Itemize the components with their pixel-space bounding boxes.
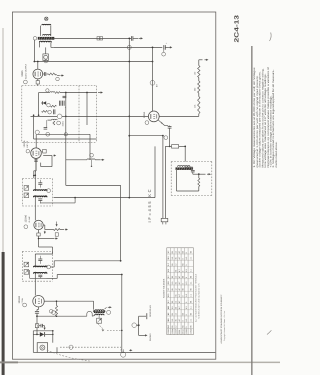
oscillator coil L2 upper winding — [95, 310, 104, 311]
svg-text:TO B MINUS WITH LINE VOLTAGE A: TO B MINUS WITH LINE VOLTAGE AT 117V — [197, 282, 200, 319]
B+ bus trunk x=130.8 — [128, 40, 130, 197]
svg-text:98: 98 — [189, 301, 192, 303]
svg-text:2: 2 — [167, 259, 170, 260]
svg-text:85: 85 — [171, 288, 174, 290]
wire: x=155 down from 146.4 — [154, 146, 156, 197]
V5 cathode diagonal — [158, 120, 168, 126]
output transformer T3 primary winding — [39, 41, 51, 42]
svg-text:2.1: 2.1 — [189, 306, 192, 309]
svg-text:12BA6: 12BA6 — [25, 214, 28, 222]
resistor R4 screen dropping — [54, 229, 61, 231]
svg-text:12AT6: 12AT6 — [23, 140, 26, 148]
wire: left rail lower x=33.6 — [33, 115, 35, 139]
svg-text:85: 85 — [171, 264, 174, 266]
part label circle T1 — [47, 265, 51, 269]
svg-text:0.5: 0.5 — [171, 306, 174, 309]
tuning gang curve arrow (dashed) — [98, 323, 103, 328]
wire: trunk x=121.8 down — [121, 275, 123, 353]
ganged tuning dashed line — [60, 346, 121, 348]
capacitor C17 — [168, 126, 172, 128]
part label circle V1 — [23, 303, 27, 307]
svg-text:35: 35 — [174, 270, 177, 272]
svg-text:88: 88 — [181, 251, 184, 253]
wire: T1 to B+ bus with kink — [51, 266, 55, 268]
pilot lamp I1 — [43, 54, 49, 61]
tube V5 35W4 rectifier — [148, 111, 159, 122]
wire: left branch down from T3 label — [33, 40, 35, 62]
svg-text:85: 85 — [171, 313, 174, 315]
grid box at V3 — [43, 149, 47, 153]
resistor R6 — [51, 105, 57, 107]
svg-text:12: 12 — [174, 301, 177, 303]
svg-text:12BE6: 12BE6 — [185, 328, 188, 333]
T1 trimmer capacitor upper — [38, 258, 42, 260]
svg-text:7: 7 — [167, 290, 170, 291]
wire: plate line to osc coil — [57, 300, 94, 302]
wire: H6 corner down to dial lamp tap — [89, 134, 91, 160]
svg-text:150: 150 — [193, 72, 196, 75]
svg-text:4.7: 4.7 — [178, 319, 181, 322]
capacitor C10 bypass — [65, 93, 67, 97]
svg-text:4: 4 — [167, 271, 170, 272]
svg-text:4.7: 4.7 — [178, 306, 181, 309]
svg-text:4.7: 4.7 — [178, 257, 181, 260]
speaker plug fork — [132, 323, 137, 328]
wire: B+ trunk x=120.6 — [120, 185, 122, 260]
svg-text:AUDIO OUTPUT: AUDIO OUTPUT — [25, 63, 28, 79]
wire: V1 cathode down — [38, 307, 40, 310]
svg-text:98: 98 — [189, 276, 192, 278]
svg-text:12: 12 — [174, 313, 177, 315]
part label circle V3 — [26, 149, 30, 153]
T2 primary winding — [34, 190, 47, 191]
svg-text:85: 85 — [171, 276, 174, 278]
T1 inner bottom wire — [30, 277, 47, 279]
wire: plate feed down to rectifier V5 — [152, 47, 154, 111]
dashed enclosure: IF transformer T2 — [22, 178, 52, 180]
part label circle 15 — [46, 89, 49, 92]
T1 secondary winding — [34, 272, 47, 273]
resistor R10 grid leak — [49, 73, 56, 75]
wire: trunk from H4 down (x=65.8) — [65, 93, 67, 186]
voltage divider resistor R14b — [198, 81, 200, 93]
junction circle on plate line of V3 — [35, 130, 39, 134]
wire: H at 146.4 with resistor R15 — [165, 145, 171, 147]
tick below dial tap — [91, 160, 93, 165]
svg-text:50B5: 50B5 — [21, 70, 24, 77]
part label circle on plate feed — [150, 80, 155, 85]
svg-text:12AT6: 12AT6 — [174, 329, 177, 334]
tube V3 12AT6 det-AVC-audio — [31, 148, 42, 159]
svg-text:6.3: 6.3 — [185, 294, 188, 297]
svg-text:10: 10 — [167, 307, 170, 309]
wire: T2 secondary to V2 grid — [34, 206, 36, 220]
part label circle V5 — [145, 121, 149, 125]
svg-text:98: 98 — [189, 313, 192, 315]
svg-text:SPKR PLUG: SPKR PLUG — [149, 305, 152, 317]
H6 wire: V3 plate to coupling — [37, 133, 90, 135]
filament bus H3 — [34, 61, 153, 63]
svg-text:1: 1 — [167, 252, 170, 253]
arrow: to dial lamp — [101, 159, 103, 161]
capacitor C20 with arrow — [39, 325, 41, 327]
part label circle R2b — [49, 310, 53, 314]
tube V1 12BE6 converter — [33, 296, 44, 307]
slug box A — [97, 318, 102, 323]
svg-text:2.1: 2.1 — [189, 257, 192, 260]
wire: V1 plate right — [44, 300, 56, 302]
capacitor C11 bars — [52, 109, 54, 114]
wire: right leg down — [52, 331, 54, 343]
coil L5 detector load — [39, 92, 50, 94]
svg-text:2.1: 2.1 — [189, 294, 192, 297]
interlock plug — [161, 218, 168, 221]
svg-text:4.7: 4.7 — [178, 282, 181, 285]
wire: T3 primary left lead down — [38, 42, 40, 47]
V2 AVC arrow — [44, 231, 46, 233]
resistor R7 row — [42, 111, 48, 113]
svg-text:12BE6: 12BE6 — [18, 295, 21, 303]
svg-text:3: 3 — [167, 265, 170, 266]
part label circle R2 — [52, 311, 56, 315]
svg-text:PHONO: PHONO — [149, 333, 152, 341]
junction circle on H3 — [44, 60, 47, 63]
capacitor C9 at end of H2 — [163, 45, 165, 50]
part label circle 17 — [48, 110, 52, 114]
output transformer T3 secondary winding — [43, 35, 51, 36]
wire: twin leads down to interlock — [162, 136, 164, 219]
svg-text:50B5: 50B5 — [178, 330, 181, 334]
wire: T1 to converter V1 grid — [34, 281, 36, 295]
dashed enclosure: volume control & detector network — [22, 85, 97, 87]
svg-text:12BA6: 12BA6 — [171, 328, 174, 333]
svg-text:0: 0 — [185, 277, 188, 278]
svg-text:0: 0 — [185, 252, 188, 253]
T2 trimmer capacitor upper — [38, 182, 42, 184]
svg-text:11: 11 — [167, 313, 170, 315]
part label circle V2 — [24, 225, 28, 229]
T2 secondary winding — [34, 196, 47, 197]
diode element D1 — [43, 101, 47, 105]
junction circle on H2 under C8 — [127, 45, 131, 49]
wire: H7 from trunk to tap — [66, 159, 87, 161]
dashed enclosure: filter choke / 1st IF — [171, 161, 212, 163]
svg-text:SOCKET VOLTAGES: SOCKET VOLTAGES — [163, 278, 166, 298]
choke L4 winding — [178, 166, 191, 167]
svg-text:0: 0 — [181, 283, 184, 284]
dashed partition of control section — [78, 86, 80, 143]
dial lamp tap coil L6 — [87, 159, 95, 160]
svg-text:88: 88 — [181, 276, 184, 278]
svg-text:ALL VOLTAGES MEASURED FROM SOC: ALL VOLTAGES MEASURED FROM SOCKET TERMIN… — [194, 273, 197, 322]
V2 plate wire and corner — [43, 224, 45, 226]
svg-text:IF=455 KC: IF=455 KC — [147, 189, 152, 222]
volume control R8 winding — [52, 118, 58, 121]
svg-text:35: 35 — [174, 307, 177, 309]
svg-text:0.5: 0.5 — [171, 282, 174, 285]
part label box 12 — [55, 233, 58, 236]
output transformer T3 core — [38, 37, 55, 40]
capacitor C8 at end of H1 — [130, 36, 132, 41]
svg-text:0: 0 — [181, 271, 184, 272]
svg-text:IF AMP: IF AMP — [28, 216, 31, 223]
electrolytic caps C12 C13 — [58, 101, 60, 106]
part label circle tuning — [69, 345, 73, 349]
svg-text:1MEG: 1MEG — [61, 121, 64, 127]
resistor R16 — [198, 178, 200, 187]
svg-text:6.3: 6.3 — [185, 306, 188, 309]
svg-text:0: 0 — [185, 314, 188, 315]
svg-text:6.3: 6.3 — [185, 282, 188, 285]
grid capacitor C14 at V4 — [43, 73, 44, 75]
voltage divider resistor R14c — [198, 97, 200, 114]
svg-text:0: 0 — [185, 302, 188, 303]
svg-text:6: 6 — [167, 283, 170, 284]
svg-text:12: 12 — [174, 288, 177, 290]
wire: T3 primary right lead down — [50, 42, 52, 47]
svg-text:47: 47 — [178, 251, 181, 253]
svg-text:2C4-13: 2C4-13 — [233, 14, 240, 42]
svg-text:47: 47 — [178, 276, 181, 278]
resistor R5 in series — [55, 92, 60, 94]
wire: box bottom rail — [34, 138, 97, 140]
part label circle 18 — [57, 121, 61, 125]
svg-text:12: 12 — [174, 251, 177, 253]
wire: to rectifier line — [36, 328, 38, 335]
svg-text:12: 12 — [174, 264, 177, 266]
part label circle 24 — [33, 37, 37, 41]
phono jack arrow — [138, 325, 140, 335]
svg-text:0: 0 — [181, 296, 184, 297]
svg-text:9: 9 — [167, 302, 170, 303]
part label circle 16 — [47, 103, 51, 107]
small mark bottom right — [267, 330, 271, 334]
T1 primary winding — [34, 266, 47, 267]
wire: down to 1st IF transformer — [39, 246, 53, 248]
part label circle 19 — [46, 132, 50, 136]
svg-text:88: 88 — [181, 326, 184, 328]
wire+arrow at top of divider — [198, 60, 200, 66]
wire: B+ feed from trunk via H185 — [66, 184, 121, 186]
svg-text:12BA6: 12BA6 — [189, 328, 192, 333]
line filter box — [35, 324, 39, 328]
wire: V3 cathode down to IF transformer T2 — [35, 159, 37, 172]
bottom chassis wire — [48, 352, 216, 354]
wire: plate line from T3 (H2) — [54, 46, 163, 48]
wire: grid line with loop jumper — [57, 315, 87, 317]
svg-text:2.1: 2.1 — [189, 269, 192, 272]
T1 trimmer capacitor lower — [38, 274, 42, 276]
T2 slug arrows — [24, 186, 29, 191]
svg-text:2.1: 2.1 — [189, 319, 192, 322]
dashed enclosure: IF transformer T1 — [22, 250, 52, 252]
T1 lead wires — [52, 251, 54, 254]
scan artifact: bottom page edge line — [0, 362, 280, 364]
capacitor C18 — [185, 166, 193, 168]
svg-text:8: 8 — [167, 296, 170, 297]
AC plug P1 — [37, 343, 47, 353]
tube V2 12BA6 IF amplifier — [34, 220, 43, 229]
wire: V4 cathode to dashed box — [37, 84, 39, 86]
svg-text:13: 13 — [167, 326, 170, 328]
scan artifact: left page edge shadow — [2, 28, 3, 252]
wire: B+ line from output transformer (H1) — [54, 37, 132, 39]
svg-text:47: 47 — [178, 301, 181, 303]
wire: lamp to bus H3 — [45, 61, 47, 62]
wire: inner rail x=87 — [86, 93, 88, 126]
part label circle T2 — [47, 189, 51, 193]
svg-text:6.3: 6.3 — [185, 257, 188, 260]
svg-text:88: 88 — [181, 264, 184, 266]
part label circle C9 — [162, 52, 166, 56]
part label circle L2 — [107, 310, 111, 314]
selenium rectifier D2 — [40, 332, 44, 337]
svg-text:85: 85 — [171, 251, 174, 253]
svg-text:Copyright Howard W. Sams + Co.: Copyright Howard W. Sams + Co. Inc. — [223, 310, 226, 341]
oscillator coil L2 lower winding — [95, 314, 104, 315]
tube voltage chart — [167, 248, 194, 335]
svg-text:0.5: 0.5 — [171, 257, 174, 260]
svg-text:98: 98 — [189, 326, 192, 328]
svg-text:0: 0 — [185, 327, 188, 328]
capacitor C2 cathode bypass — [35, 311, 39, 313]
V4 cathode resistor R11 — [37, 79, 39, 81]
svg-text:35W4: 35W4 — [143, 111, 146, 118]
T1 slug arrows — [24, 262, 29, 267]
svg-text:6.3: 6.3 — [185, 319, 188, 322]
svg-text:98: 98 — [189, 251, 192, 253]
wire: box bottom — [177, 190, 199, 192]
tube V4 50B5 audio output — [33, 69, 43, 79]
svg-text:12: 12 — [174, 326, 177, 328]
svg-text:A RADIOCRAFT STANDARD NOTATION: A RADIOCRAFT STANDARD NOTATION SCHEMATIC — [220, 294, 223, 343]
svg-text:85: 85 — [171, 326, 174, 328]
choke L4 core — [176, 167, 193, 170]
fuse F1 on B+ line — [97, 37, 100, 40]
svg-text:0: 0 — [185, 265, 188, 266]
part label circle C17 — [164, 136, 168, 140]
arrow B+ out — [139, 37, 142, 39]
volume control wiper — [53, 121, 55, 125]
gang dashed link to tuning capacitor — [107, 329, 122, 331]
wire: detector output (H4) — [60, 92, 97, 94]
speaker frame — [41, 26, 51, 36]
svg-text:4.7: 4.7 — [178, 294, 181, 297]
power cord (dashed) — [47, 350, 90, 361]
arrow plate out — [168, 46, 171, 48]
R4 feed tick — [56, 222, 58, 225]
svg-text:35: 35 — [174, 295, 177, 297]
wire: H at 135.7 — [129, 135, 163, 137]
speaker SP1 cone and voice coil — [45, 17, 48, 20]
capacitor C15 — [44, 127, 48, 129]
AVC branch arrow — [39, 238, 55, 240]
wire: V4 plate to H3 — [37, 62, 39, 70]
oscillator coil L2 core bar — [94, 311, 105, 313]
svg-text:98: 98 — [189, 288, 192, 290]
wire: osc grid return — [37, 315, 57, 317]
svg-text:88: 88 — [181, 313, 184, 315]
handwritten check mark — [270, 33, 272, 42]
svg-text:88: 88 — [181, 288, 184, 290]
svg-text:2.1: 2.1 — [189, 282, 192, 285]
svg-text:CONV: CONV — [21, 297, 24, 303]
resistor R2 osc grid — [56, 301, 58, 305]
svg-text:35W4: 35W4 — [181, 329, 184, 334]
svg-text:47: 47 — [178, 288, 181, 290]
svg-text:6.3: 6.3 — [185, 269, 188, 272]
wire: left leg down — [32, 331, 34, 353]
part label circle V4 — [24, 80, 28, 84]
svg-text:ments noted above.: ments noted above. — [275, 141, 278, 167]
scan artifact: right page fold line — [251, 46, 252, 375]
arrow: output right — [192, 172, 194, 174]
arrow: oscillator plate out — [105, 307, 107, 309]
T2 trimmer capacitor lower — [38, 198, 42, 200]
wire: left rail upper x=38.6 — [38, 93, 40, 116]
svg-text:85: 85 — [171, 301, 174, 303]
wire: plate row with screen resistor — [45, 229, 54, 231]
wire: volume row — [48, 119, 52, 121]
V3 cathode bypass bars — [34, 159, 37, 161]
svg-text:12: 12 — [174, 276, 177, 278]
svg-text:DET AF: DET AF — [26, 140, 29, 147]
svg-text:12BE6: 12BE6 — [167, 328, 170, 333]
svg-text:35: 35 — [174, 257, 177, 259]
svg-text:4.7: 4.7 — [178, 269, 181, 272]
rectifier line — [33, 333, 39, 335]
svg-text:35: 35 — [174, 319, 177, 321]
wire: AVC bus at y=197.6 — [54, 197, 156, 199]
wire: hook from T2 lower cap to AVC bus — [40, 202, 75, 204]
T2 lead wires — [34, 179, 36, 190]
wire: V3 plate up to H6 — [35, 134, 37, 148]
arrow: audio take-off out of box — [98, 92, 101, 94]
B minus line upper — [33, 330, 53, 332]
junction circle on chassis wire — [121, 352, 126, 357]
V2 cathode chain down — [38, 230, 40, 233]
svg-text:35: 35 — [174, 282, 177, 284]
svg-text:680: 680 — [193, 88, 196, 91]
schematic border frame — [12, 12, 215, 359]
wire: T1 secondary return with kink — [47, 277, 58, 279]
wire: V3 cathode down to IF transformer T2 — [35, 159, 37, 171]
wire: choke leads — [176, 170, 178, 191]
svg-text:0: 0 — [181, 320, 184, 321]
wire arrow AVC feed — [61, 75, 63, 77]
svg-text:5: 5 — [167, 277, 170, 278]
voltage divider resistor R14a — [198, 66, 200, 78]
wire: V3 plate loop — [43, 155, 52, 157]
svg-text:12: 12 — [167, 320, 170, 322]
svg-text:0: 0 — [181, 258, 184, 259]
wire: H5 heater line through control box to rectifier — [31, 115, 149, 117]
svg-text:0.5: 0.5 — [171, 319, 174, 322]
